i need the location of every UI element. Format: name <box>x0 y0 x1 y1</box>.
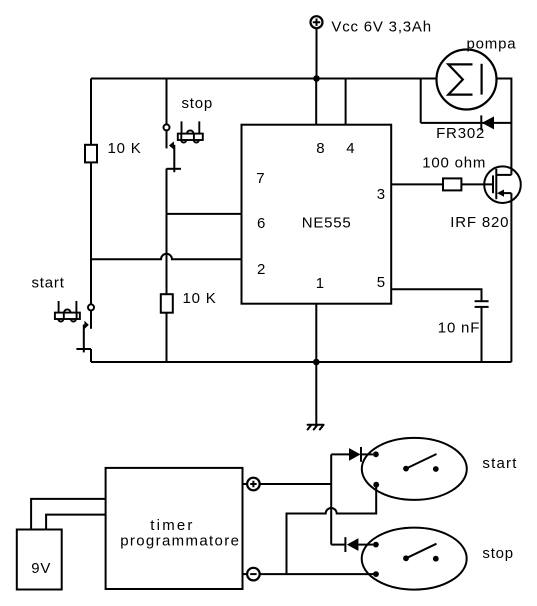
svg-text:2: 2 <box>257 261 266 278</box>
resistor R2 10 K <box>161 294 173 313</box>
svg-text:8: 8 <box>316 140 325 157</box>
wire trigger row pin 2 with hop <box>91 254 242 259</box>
terminal plus <box>243 478 260 491</box>
wire R2 to ground bus <box>166 313 168 362</box>
svg-text:start: start <box>32 275 65 292</box>
svg-text:start: start <box>482 455 517 472</box>
wire stop column top <box>166 79 168 125</box>
svg-text:4: 4 <box>346 140 355 157</box>
relay contact start oval <box>362 438 467 500</box>
svg-text:10 K: 10 K <box>183 290 217 307</box>
wire pin 8 <box>315 79 317 125</box>
wire left column to R1 <box>90 79 92 145</box>
start button icon <box>55 301 80 322</box>
wire start oval return with hop <box>287 485 377 574</box>
wire plus to riser <box>260 483 332 485</box>
wire threshold row pin 6 <box>167 213 242 215</box>
wire battery wire 1 <box>31 499 106 530</box>
svg-text:10 K: 10 K <box>108 140 142 157</box>
ground <box>308 425 324 430</box>
wire pin 1 to bus <box>315 304 317 362</box>
svg-text:10 nF: 10 nF <box>438 320 480 337</box>
wire pin 4 <box>345 79 347 125</box>
wire resistor to gate <box>461 183 493 185</box>
terminal minus <box>243 568 260 581</box>
diode D1 FR302 <box>421 115 512 130</box>
junction ground node <box>313 359 320 366</box>
svg-text:100 ohm: 100 ohm <box>422 155 486 172</box>
wire control row pin 5 <box>391 289 481 301</box>
svg-text:FR302: FR302 <box>436 125 485 142</box>
relay contact stop oval <box>362 528 467 590</box>
box timer programmatore <box>106 468 243 589</box>
svg-text:NE555: NE555 <box>302 215 352 232</box>
wire Vcc bus <box>91 78 437 80</box>
transistor Q1 IRF 820 <box>484 166 521 203</box>
svg-text:5: 5 <box>377 274 386 291</box>
IC U1 NE555 <box>242 125 392 304</box>
wire minus row <box>260 573 376 575</box>
svg-text:IRF 820: IRF 820 <box>450 214 509 231</box>
svg-text:7: 7 <box>256 170 265 187</box>
pushbutton stop (schematic contact) <box>164 124 182 294</box>
wire pompa branch down <box>420 79 422 123</box>
stop button icon <box>178 121 203 142</box>
svg-text:stop: stop <box>182 95 214 112</box>
wire R1 to start switch <box>90 162 92 304</box>
wire pin 3 to gate resistor <box>391 183 443 185</box>
diode D3 stop <box>331 537 373 552</box>
svg-text:1: 1 <box>316 275 325 292</box>
power terminal Vcc <box>311 16 323 78</box>
motor M1 pompa <box>437 50 497 110</box>
svg-text:pompa: pompa <box>467 35 517 52</box>
wire battery wire 2 <box>46 515 106 530</box>
battery B1 9V <box>17 530 62 590</box>
wire ground bus <box>91 361 511 363</box>
svg-text:programmatore: programmatore <box>120 532 240 549</box>
wire cap to ground bus <box>481 307 483 362</box>
svg-text:Vcc 6V 3,3Ah: Vcc 6V 3,3Ah <box>331 18 432 35</box>
capacitor C1 10 nF <box>475 301 489 307</box>
svg-text:9V: 9V <box>31 560 51 577</box>
svg-text:6: 6 <box>257 215 266 232</box>
pushbutton start (schematic contact) <box>76 304 94 362</box>
svg-text:stop: stop <box>482 545 514 562</box>
wire riser <box>330 454 332 544</box>
diode D2 start <box>331 447 373 462</box>
svg-text:3: 3 <box>377 186 386 203</box>
wire bus to ground symbol <box>315 362 317 424</box>
wire pompa right to drain rail <box>497 79 512 175</box>
resistor R1 10 K <box>85 145 97 163</box>
wire source to ground bus <box>510 193 512 362</box>
resistor R3 100 ohm <box>443 178 461 190</box>
junction Vcc node <box>313 75 320 82</box>
